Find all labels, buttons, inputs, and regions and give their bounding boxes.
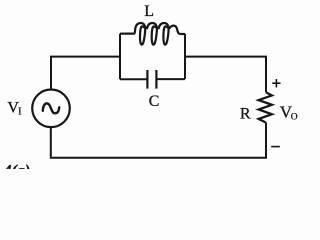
capacitor C left plate	[146, 70, 148, 89]
wire: top right horizontal and right riser to resistor	[185, 57, 266, 93]
resistor R zigzag	[259, 92, 272, 122]
capacitor C right plate	[155, 70, 157, 89]
svg-text:R: R	[240, 105, 251, 122]
svg-text:I: I	[18, 106, 22, 117]
inductor L	[120, 23, 185, 45]
wire: source top riser and left horizontal to LC box	[51, 57, 120, 90]
source sine wave	[43, 103, 59, 113]
wire: capacitor left lead	[120, 78, 147, 80]
wire: capacitor right lead	[156, 78, 185, 80]
svg-text:4(a): 4(a)	[3, 163, 31, 169]
minus sign	[271, 146, 280, 148]
wire: resistor bottom riser, bottom rail, source bottom riser	[51, 123, 266, 158]
node B: LC box right vertical	[184, 34, 186, 79]
source V1 circle	[32, 90, 70, 128]
plus sign	[272, 79, 280, 87]
node A: LC box left vertical	[119, 34, 121, 80]
svg-text:C: C	[149, 93, 160, 110]
svg-text:O: O	[291, 113, 298, 123]
svg-text:L: L	[144, 3, 154, 20]
